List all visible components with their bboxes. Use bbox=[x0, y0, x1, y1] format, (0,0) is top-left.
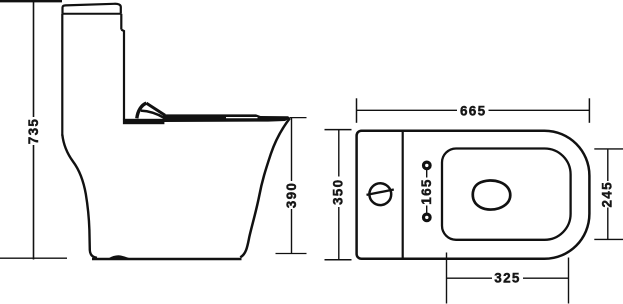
text 350 bbox=[331, 179, 346, 205]
svg-text:350: 350 bbox=[331, 179, 346, 205]
dim 735 vertical dimension line bbox=[33, 1, 35, 259]
dim 735 bottom extension line bbox=[0, 257, 67, 259]
tank body right edge (upper, lid skirt) bbox=[120, 14, 122, 30]
text 325 bbox=[494, 271, 520, 286]
text 165 bbox=[419, 178, 434, 204]
bowl front curve (left profile) bbox=[62, 135, 97, 258]
dim 245 top tick bbox=[594, 148, 623, 150]
svg-text:325: 325 bbox=[494, 271, 520, 286]
bolt hole top bbox=[424, 162, 431, 169]
text 665 bbox=[460, 104, 486, 119]
dim 665 end ticks bbox=[357, 98, 590, 123]
svg-text:665: 665 bbox=[460, 104, 486, 119]
bowl back curve (right profile) bbox=[240, 118, 290, 257]
dim 390 vertical dimension line bbox=[291, 118, 293, 254]
seat hinge bump bbox=[137, 103, 165, 118]
base line bbox=[92, 258, 242, 261]
text 245 bbox=[599, 181, 614, 207]
tank lid bbox=[63, 4, 121, 14]
dim 325 dimension line bbox=[447, 277, 569, 279]
dim 390 bottom tick bbox=[276, 253, 307, 255]
dim 325 left extension line bbox=[446, 253, 448, 304]
inner bowl opening bbox=[473, 180, 510, 209]
svg-text:390: 390 bbox=[284, 182, 299, 208]
seat outline (top view) bbox=[442, 149, 571, 240]
text 735 bbox=[26, 118, 41, 144]
seat (closed lid, side profile) bbox=[163, 114, 291, 122]
dim 350 dimension line bbox=[338, 130, 340, 260]
dim 735 top extension line bbox=[0, 0, 62, 2]
dim 390 top extension line bbox=[290, 117, 307, 119]
dim 325 right extension line bbox=[568, 258, 570, 304]
tank body right edge (lower) bbox=[121, 30, 124, 120]
bowl rim ledge under seat bbox=[123, 119, 164, 124]
body outline bbox=[357, 131, 590, 259]
dim 245 bottom tick bbox=[594, 238, 623, 240]
flush button circle bbox=[367, 183, 394, 205]
bolt hole bottom bbox=[424, 214, 431, 221]
drain arrow mark on base bbox=[109, 255, 130, 258]
dim 245 dimension line bbox=[607, 149, 609, 240]
text 390 bbox=[284, 182, 299, 208]
dim 350 end ticks bbox=[325, 130, 352, 260]
dim 165 line segments bbox=[426, 170, 428, 214]
tank body left edge bbox=[61, 14, 63, 136]
dim 665 dimension line bbox=[357, 109, 590, 111]
svg-text:165: 165 bbox=[419, 178, 434, 204]
tank divider line bbox=[402, 131, 404, 259]
svg-text:735: 735 bbox=[26, 118, 41, 144]
svg-text:245: 245 bbox=[599, 181, 614, 207]
